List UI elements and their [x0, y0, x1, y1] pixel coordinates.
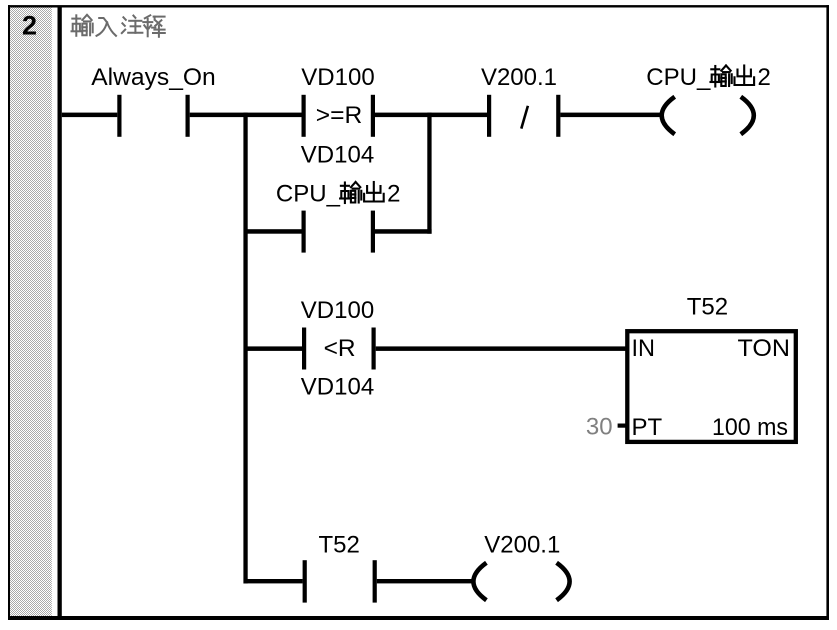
node branch vertical right — [427, 113, 431, 234]
wire contact1 to compare contact — [190, 113, 302, 118]
network comment 输入注释 — [72, 15, 165, 37]
frame top border — [8, 5, 829, 7]
svg-text:CPU_: CPU_ — [646, 64, 711, 91]
timer rung wire left — [244, 346, 302, 351]
svg-text:T52: T52 — [319, 531, 360, 558]
contact Always_On left bar — [117, 95, 121, 137]
compare contact >=R right bar — [371, 95, 375, 137]
wire rail to contact I1 — [62, 113, 118, 118]
contact T52 left bar — [303, 560, 307, 602]
coil CPU_输出2 right arc — [741, 97, 754, 134]
compare contact <R left bar — [302, 328, 306, 370]
network number sidebar (gray dither) — [10, 8, 52, 617]
contact T52 right bar — [373, 560, 377, 602]
svg-text:30: 30 — [586, 414, 613, 441]
label CPU_输出2 contact — [276, 181, 401, 208]
node branch vertical left — [243, 113, 247, 584]
svg-text:VD100: VD100 — [301, 64, 374, 91]
label CPU_输出2 coil — [646, 64, 771, 91]
parallel rung wire right — [375, 229, 432, 234]
frame bottom border — [8, 616, 829, 620]
PT input tick — [618, 424, 628, 428]
svg-text:VD104: VD104 — [301, 373, 374, 400]
coil V200.1 left arc — [473, 563, 486, 600]
power rail — [58, 8, 62, 617]
svg-text:2: 2 — [758, 64, 771, 91]
NC contact V200.1 left bar — [487, 95, 491, 137]
frame right border — [826, 5, 829, 620]
svg-text:IN: IN — [632, 335, 656, 362]
contact CPU_输出2 left bar — [302, 211, 306, 253]
svg-text:T52: T52 — [687, 293, 728, 320]
timer box T52 outline — [627, 331, 796, 442]
wire compare to timer box — [376, 346, 628, 351]
svg-text:CPU_: CPU_ — [276, 181, 341, 208]
svg-text:2: 2 — [22, 10, 37, 40]
NC contact V200.1 right bar — [556, 95, 560, 137]
svg-text:V200.1: V200.1 — [481, 64, 557, 91]
svg-text:PT: PT — [632, 414, 663, 441]
NC contact slash — [521, 106, 528, 129]
wire compare to NC contact — [375, 113, 487, 118]
svg-text:TON: TON — [738, 335, 791, 362]
svg-text:Always_On: Always_On — [91, 64, 216, 91]
contact CPU_输出2 right bar — [371, 211, 375, 253]
svg-text:VD104: VD104 — [301, 142, 374, 169]
svg-text:2: 2 — [387, 181, 400, 208]
coil V200.1 right arc — [557, 563, 570, 600]
compare contact <R right bar — [372, 328, 376, 370]
parallel rung wire left — [244, 229, 302, 234]
coil CPU_输出2 left arc — [662, 97, 675, 134]
bottom rung wire left — [244, 579, 303, 583]
svg-text:VD100: VD100 — [301, 297, 374, 324]
wire T52 contact to coil V200.1 — [377, 579, 472, 583]
compare contact >=R left bar — [302, 95, 306, 137]
wire NC contact to coil CPU_out2 — [560, 113, 661, 118]
contact Always_On right bar — [186, 95, 190, 137]
svg-text:V200.1: V200.1 — [484, 531, 560, 558]
svg-text:100 ms: 100 ms — [712, 414, 788, 441]
svg-text:<R: <R — [324, 335, 356, 362]
svg-text:>=R: >=R — [316, 102, 363, 129]
frame left border — [8, 5, 10, 620]
